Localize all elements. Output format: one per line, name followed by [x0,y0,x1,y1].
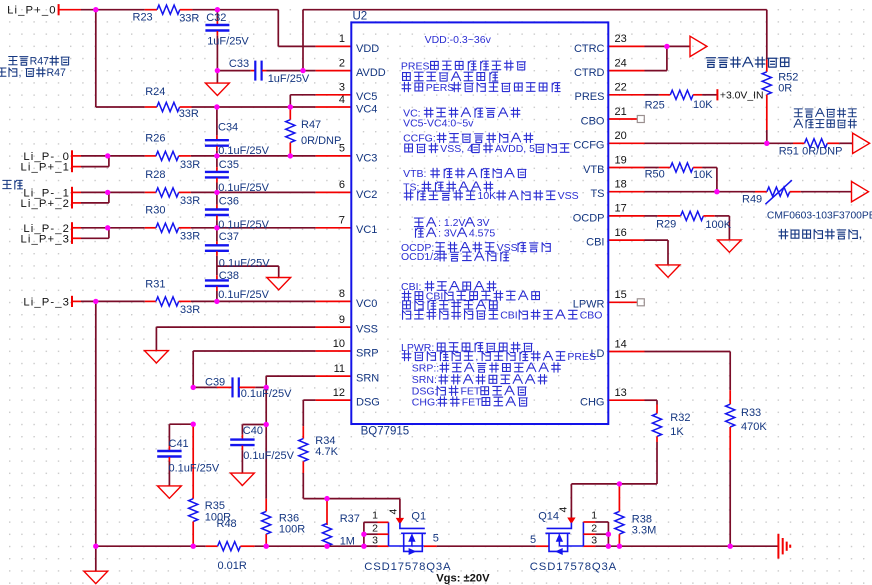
svg-text:100K: 100K [705,219,731,231]
svg-text:VC4: VC4 [356,103,377,115]
svg-text:VSS: VSS [356,324,378,336]
svg-text:0.1uF/25V: 0.1uF/25V [241,388,292,400]
svg-text:PRES: PRES [575,91,605,103]
svg-text:C37: C37 [219,231,239,243]
svg-text:C33: C33 [229,58,249,70]
svg-text:33R: 33R [180,304,200,316]
svg-text:+3.0V_IN: +3.0V_IN [720,91,764,102]
svg-text:19: 19 [615,154,627,166]
svg-text:,: , [19,67,22,79]
svg-text:4.7K: 4.7K [315,446,338,458]
svg-text:12: 12 [333,387,345,399]
svg-text:C34: C34 [218,121,238,133]
svg-text:VC2: VC2 [356,189,377,201]
svg-text:R49: R49 [742,193,762,205]
svg-text:CBO: CBO [580,310,603,322]
svg-text:33R: 33R [180,195,200,207]
svg-text:0R/DNP: 0R/DNP [301,135,341,147]
svg-text:CSD17578Q3A: CSD17578Q3A [364,561,451,573]
svg-text:CMF0603-103F3700PBLT: CMF0603-103F3700PBLT [767,210,872,221]
svg-text:: 3V: : 3V [438,228,457,240]
svg-text:23: 23 [615,33,627,45]
svg-text:1uF/25V: 1uF/25V [207,35,249,47]
svg-text:33R: 33R [179,13,199,25]
svg-text:VC5: VC5 [356,91,377,103]
svg-text:Li_P-_3: Li_P-_3 [23,296,70,308]
svg-text:100R: 100R [279,524,305,536]
svg-text:18: 18 [615,179,627,191]
svg-text:SRP::: SRP:: [412,362,439,374]
svg-text:R28: R28 [145,169,165,181]
svg-text:1: 1 [372,510,378,522]
svg-text:C36: C36 [219,196,239,208]
svg-text:VSS, 4: VSS, 4 [440,143,473,155]
svg-text:4: 4 [388,509,400,515]
svg-text:22: 22 [615,82,627,94]
svg-text:CBI: CBI [586,237,604,249]
svg-text:PRES:: PRES: [401,60,433,72]
svg-text:CCFG: CCFG [573,140,604,152]
svg-text:24: 24 [615,57,627,69]
svg-text:R29: R29 [656,218,676,230]
svg-text:0.1uF/25V: 0.1uF/25V [218,182,269,194]
svg-text:3.3M: 3.3M [632,524,656,536]
svg-text:14: 14 [615,338,627,350]
svg-text:10K: 10K [693,169,713,181]
svg-text:R35: R35 [205,500,225,512]
svg-text:VC0: VC0 [356,298,377,310]
svg-text:,: , [859,230,862,241]
svg-text:R48: R48 [217,518,237,530]
svg-text:CSD17578Q3A: CSD17578Q3A [530,561,617,573]
svg-text:C32: C32 [206,12,226,24]
svg-text:TS:: TS: [403,181,419,193]
svg-text:0R/DNP: 0R/DNP [802,145,842,157]
svg-text:BQ77915: BQ77915 [361,426,410,438]
svg-text:17: 17 [615,203,627,215]
svg-text:U2: U2 [353,11,368,23]
svg-text:0.1uF/25V: 0.1uF/25V [218,219,269,231]
svg-text:10: 10 [333,338,345,350]
svg-text:1: 1 [339,33,345,45]
svg-text:3: 3 [339,82,345,94]
svg-text:DSG: DSG [356,397,380,409]
svg-text:1M: 1M [340,535,355,547]
svg-text:5: 5 [433,532,439,544]
svg-text:C38: C38 [219,270,239,282]
svg-text:CCFG:: CCFG: [403,133,436,145]
svg-text:AVDD: AVDD [356,67,386,79]
svg-text:10K: 10K [693,99,713,111]
svg-text:470K: 470K [741,421,767,433]
svg-text:,: , [475,351,478,363]
svg-text:3: 3 [591,534,597,546]
svg-text:VDD: VDD [356,43,379,55]
svg-text:C39: C39 [205,377,225,389]
svg-text:20: 20 [615,130,627,142]
svg-text:R50: R50 [645,168,665,180]
svg-text:8: 8 [339,288,345,300]
svg-text:R51: R51 [779,145,799,157]
svg-text:9: 9 [339,314,345,326]
svg-text:7: 7 [339,215,345,227]
svg-text:Q1: Q1 [411,510,426,522]
svg-text:OCD1/2: OCD1/2 [401,251,439,263]
svg-text:33R: 33R [179,108,199,120]
svg-text:R25: R25 [645,99,665,111]
svg-text:R37: R37 [340,513,360,525]
svg-text:Li_P+_3: Li_P+_3 [21,233,70,245]
svg-text:R31: R31 [145,278,165,290]
svg-text:VC3: VC3 [356,152,377,164]
svg-text:3: 3 [372,534,378,546]
svg-text:R23: R23 [133,12,153,24]
svg-text:CBI: CBI [500,310,518,322]
svg-text:R32: R32 [670,412,690,424]
svg-text:CHG:: CHG: [412,396,438,408]
svg-text:4: 4 [339,94,345,106]
svg-text:0R: 0R [778,82,792,94]
svg-text:2: 2 [339,57,345,69]
svg-text:R24: R24 [145,86,165,98]
svg-text:6: 6 [339,179,345,191]
svg-text:PRES: PRES [567,351,596,363]
svg-text:1: 1 [591,510,597,522]
svg-text:0.1uF/25V: 0.1uF/25V [169,463,220,475]
svg-text:10K: 10K [478,190,497,202]
svg-text:0.1uF/25V: 0.1uF/25V [218,289,269,301]
svg-text:33R: 33R [180,231,200,243]
svg-text:R47: R47 [301,119,321,131]
svg-text:CBO: CBO [581,115,605,127]
svg-text:VDD:-0.3~36v: VDD:-0.3~36v [425,34,492,46]
svg-text:0.1uF/25V: 0.1uF/25V [219,258,270,270]
svg-text:VTB:: VTB: [403,168,426,180]
svg-text:R47: R47 [30,55,50,67]
svg-text:VC5-VC4:0~5v: VC5-VC4:0~5v [403,117,474,129]
svg-text:VC1: VC1 [356,224,377,236]
svg-text:C40: C40 [243,425,263,437]
svg-text:R30: R30 [145,204,165,216]
svg-text:C41: C41 [169,438,189,450]
svg-text:AVDD, 5: AVDD, 5 [495,143,535,155]
svg-text:FET: FET [462,396,482,408]
svg-text:Li_P+_2: Li_P+_2 [21,198,70,210]
svg-text:C35: C35 [219,159,239,171]
svg-text:PERS: PERS [426,82,455,94]
svg-text:OCDP: OCDP [573,212,605,224]
svg-text:2: 2 [372,523,378,535]
svg-text:Li_P+_0: Li_P+_0 [7,5,56,17]
svg-text:1K: 1K [670,426,684,438]
svg-text:Q14: Q14 [538,510,559,522]
svg-text:5: 5 [530,534,536,546]
svg-text:0.01R: 0.01R [218,560,247,572]
svg-text:33R: 33R [180,159,200,171]
svg-text:CHG: CHG [580,397,604,409]
svg-text:4: 4 [558,507,570,513]
svg-text:0.1uF/25V: 0.1uF/25V [218,145,269,157]
svg-text:16: 16 [615,227,627,239]
svg-text:VSS: VSS [558,190,579,202]
svg-text:R47: R47 [47,67,67,79]
svg-text:15: 15 [615,289,627,301]
svg-text:CTRC: CTRC [574,43,605,55]
svg-text:TS: TS [590,188,604,200]
svg-text:4.575: 4.575 [469,228,495,240]
svg-text:CTRD: CTRD [574,67,605,79]
svg-text:R33: R33 [741,407,761,419]
svg-text:SRP: SRP [356,347,379,359]
svg-text:R26: R26 [145,133,165,145]
svg-text:13: 13 [615,387,627,399]
svg-text:11: 11 [334,363,345,375]
svg-text:21: 21 [615,106,627,118]
svg-text:SRN:: SRN: [412,374,437,386]
svg-text:Li_P+_1: Li_P+_1 [21,162,70,174]
svg-text:SRN: SRN [356,373,379,385]
svg-text:VTB: VTB [583,164,604,176]
svg-text:0.1uF/25V: 0.1uF/25V [243,450,294,462]
svg-text:2: 2 [591,523,597,535]
svg-text:1uF/25V: 1uF/25V [268,73,310,85]
